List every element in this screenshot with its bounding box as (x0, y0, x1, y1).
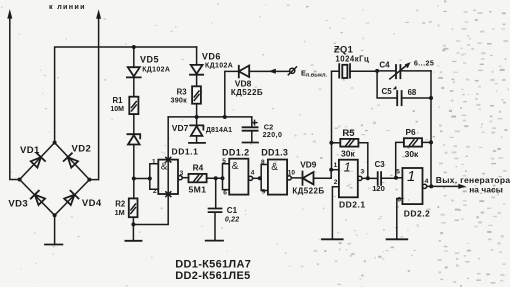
svg-text:на часы: на часы (469, 184, 503, 194)
node: output junction (429, 184, 433, 188)
svg-text:3: 3 (361, 169, 365, 176)
svg-text:4: 4 (425, 178, 429, 185)
svg-text:10: 10 (288, 169, 296, 176)
wire: DD1.2 input tie and stubs (223, 164, 230, 190)
svg-text:120: 120 (372, 184, 385, 193)
wire: C4 right (400, 70, 431, 72)
node: bridge bottom (53, 213, 57, 217)
resistor R3 (192, 86, 201, 103)
svg-text:DD2.2: DD2.2 (404, 208, 431, 218)
svg-text:VD1: VD1 (20, 145, 40, 156)
wire: R4 to DD1.2 (207, 177, 223, 179)
diode VD3 (31, 191, 46, 206)
pin 1 stub (331, 169, 339, 171)
crossing mark bottom (166, 192, 171, 197)
svg-text:6...25: 6...25 (414, 59, 434, 68)
svg-text:VD7: VD7 (172, 123, 189, 133)
wire: VD6 to R3 (196, 75, 198, 87)
wire: DD1.2 out to DD1.3 in (253, 177, 262, 179)
svg-text:КД522Б: КД522Б (231, 88, 263, 97)
node: VD8 tap on rail (223, 115, 227, 119)
svg-text:КД102А: КД102А (205, 63, 233, 70)
svg-text:68: 68 (408, 88, 417, 97)
wire: R2 to ground (132, 217, 134, 241)
wire: VD5 to R1 (133, 77, 135, 96)
svg-text:VD6: VD6 (202, 51, 221, 61)
capacitor C1 (209, 178, 222, 240)
svg-text:2: 2 (153, 188, 157, 195)
resistor R1 (129, 97, 138, 114)
wire: DD1.1 input tie line and stubs (150, 164, 159, 190)
svg-text:DD2.1: DD2.1 (339, 199, 366, 209)
svg-text:Вых. генератора: Вых. генератора (436, 175, 510, 185)
svg-text:30к: 30к (341, 149, 355, 159)
node: DD1.2 input tie (221, 176, 225, 180)
svg-text:КД102А: КД102А (142, 67, 170, 74)
wire: right vertical C4/C5 to output (430, 71, 432, 186)
svg-text:4: 4 (251, 169, 255, 176)
wire: C3 to DD2.2 pin 5 (381, 177, 402, 180)
wire: node to DD1.1 inputs (134, 178, 150, 180)
wire: output with arrow (427, 184, 466, 189)
node: bridge top (53, 141, 57, 145)
svg-text:0,22: 0,22 (225, 217, 239, 224)
node: R6 right (429, 140, 433, 144)
svg-text:R4: R4 (193, 162, 204, 172)
ground below DD2.1 (322, 238, 343, 240)
svg-text:1: 1 (344, 160, 351, 175)
svg-text:5: 5 (222, 158, 226, 165)
wire: R1 to zener (133, 114, 135, 134)
svg-text:VD3: VD3 (8, 198, 28, 209)
svg-text:Д814А1: Д814А1 (206, 127, 232, 134)
wire: R6 right (422, 141, 431, 143)
node: pin1 junction (329, 168, 333, 172)
capacitor C2 (243, 117, 258, 143)
svg-text:6: 6 (223, 189, 227, 196)
wire: VD5 branch down (133, 47, 135, 67)
svg-text:КД522Б: КД522Б (292, 187, 324, 196)
ground below bridge (45, 215, 62, 244)
svg-text:DD1.3: DD1.3 (261, 148, 288, 158)
svg-text:Р6: Р6 (406, 127, 417, 137)
resistor R2 (129, 198, 138, 217)
wire: DD1.3 input tie and stubs (261, 165, 268, 191)
svg-text:DD2-К561ЛЕ5: DD2-К561ЛЕ5 (175, 270, 250, 282)
svg-text:30к: 30к (405, 149, 419, 159)
op-gate DD2.2 (402, 168, 426, 204)
diode VD5 (127, 67, 141, 77)
wire: VD6 branch down from supply line (196, 47, 198, 65)
svg-text:DD1-К561ЛА7: DD1-К561ЛА7 (175, 258, 251, 270)
wire: R5 right down to output (358, 143, 367, 179)
diode VD2 (64, 153, 79, 168)
wire: VD8 branch up (225, 71, 239, 117)
node: DD1.1 input tie (148, 177, 152, 181)
op-gate DD1.3 (268, 160, 291, 195)
wire: crystal line down to DD2.1 pin 1 (331, 71, 333, 169)
wire: bridge top node to supply line (55, 47, 197, 143)
wire: R3 to rail (196, 104, 198, 117)
wire: zener to node (133, 145, 135, 199)
crossing mark top (166, 157, 171, 162)
svg-text:C2: C2 (264, 122, 273, 131)
wire: VD8 to terminal with arrow (249, 69, 289, 74)
wire: right AC rail with arrow (89, 9, 101, 179)
zener VD7 (189, 117, 205, 143)
svg-text:1: 1 (334, 162, 338, 169)
diode VD4 (64, 191, 79, 206)
quartz ZQ1 (332, 64, 378, 78)
resistor R6 (404, 138, 422, 146)
pin 6 wire to ground (397, 199, 403, 240)
wire: to C4 (377, 70, 396, 72)
node: DD1.3 input tie (258, 176, 262, 180)
node: bridge left (18, 178, 22, 182)
svg-text:DD1.1: DD1.1 (172, 147, 199, 157)
svg-text:C3: C3 (375, 160, 386, 169)
wire: R6 left leg down to pin5 (396, 142, 404, 177)
ground below DD2.2 (387, 238, 408, 240)
node: bridge right (87, 178, 91, 182)
svg-text:VD5: VD5 (140, 54, 159, 64)
svg-text:1: 1 (407, 168, 415, 185)
ground below C1 (206, 240, 223, 242)
wire: DD1.3 out to VD9 (291, 177, 302, 179)
terminal Еп.выкл (288, 67, 296, 75)
op-gate DD2.1 (339, 160, 362, 198)
svg-text:9: 9 (262, 189, 266, 196)
op-gate DD1.1 (158, 160, 182, 194)
wire: DD1.1 output to R4 (182, 177, 188, 179)
wire: supply rail (168, 116, 252, 118)
diode VD1 (30, 153, 45, 168)
zener diode (below R1) (127, 134, 140, 144)
svg-text:8: 8 (261, 159, 265, 166)
wire: left AC rail with arrow (7, 9, 19, 180)
svg-text:VD8: VD8 (235, 78, 252, 88)
svg-text:10М: 10М (110, 106, 124, 113)
capacitor C5 (397, 91, 401, 105)
capacitor C4 trimmer (390, 62, 411, 79)
node: R3 on rail (195, 115, 199, 119)
svg-text:VD2: VD2 (72, 144, 92, 155)
diode VD6 (190, 65, 203, 75)
capacitor C3 (378, 172, 381, 185)
ground below R2 (125, 240, 141, 242)
svg-text:5М1: 5М1 (189, 185, 207, 195)
wire: DD2.1 out to C3 (362, 177, 378, 179)
svg-text:к линии: к линии (49, 2, 86, 11)
svg-text:1: 1 (152, 158, 156, 165)
wire: VD9 to DD2.1 pin1 (314, 170, 332, 179)
svg-text:C1: C1 (227, 206, 238, 215)
svg-text:390к: 390к (171, 95, 188, 104)
svg-text:&: & (271, 162, 278, 173)
svg-text:VD4: VD4 (82, 198, 102, 209)
node: R2 bottom junction (131, 222, 135, 226)
node: R5 tap (329, 141, 333, 145)
pin 2 wire to ground (332, 187, 339, 240)
svg-text:C5: C5 (382, 87, 393, 96)
svg-text:2: 2 (334, 179, 338, 186)
C5 asterisk mark (393, 86, 397, 90)
svg-text:6: 6 (397, 197, 401, 204)
node: VD5 tap on supply line (132, 45, 136, 49)
node: C5 right (429, 96, 433, 100)
diode VD9 (303, 172, 314, 185)
node: R2 / DD1.1 input (132, 177, 136, 181)
svg-text:R1: R1 (113, 96, 124, 105)
svg-text:3: 3 (180, 170, 184, 177)
node: C1 tap (214, 176, 218, 180)
resistor R4 (189, 174, 207, 182)
svg-text:1024кГц: 1024кГц (335, 54, 369, 63)
wire: C5 branch (377, 71, 431, 98)
node: pin5 junction (394, 176, 398, 180)
svg-text:220,0: 220,0 (263, 132, 283, 139)
wire: power leg through DD1.1 (133, 117, 168, 225)
svg-text:&: & (232, 161, 239, 172)
svg-text:1М: 1М (115, 208, 125, 217)
svg-text:DD1.2: DD1.2 (222, 148, 250, 158)
svg-text:VD9: VD9 (300, 160, 317, 170)
node: crystal right (375, 69, 379, 73)
svg-text:C4: C4 (379, 61, 390, 70)
wire: bridge diamond (20, 143, 90, 216)
svg-text:R5: R5 (342, 128, 355, 139)
resistor R5 (340, 139, 358, 147)
svg-text:5: 5 (396, 168, 400, 175)
wire: R5 left (331, 142, 340, 144)
diode VD8 (239, 66, 249, 78)
node: R5 feedback tap (366, 176, 370, 180)
op-gate DD1.2 (229, 159, 252, 195)
svg-text:&: & (161, 161, 168, 172)
